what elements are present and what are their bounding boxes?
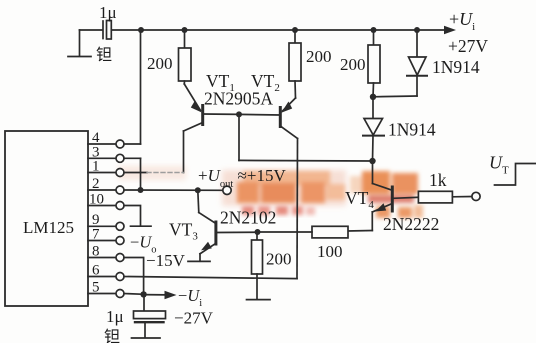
svg-text:7: 7: [92, 227, 100, 243]
wire node to VT4 collector: [372, 161, 374, 184]
pin 8 circle: [116, 254, 124, 262]
transistor VT2 2N2905A bar: [279, 108, 282, 127]
node rail/R1: [182, 27, 188, 33]
pin 7 circle: [116, 237, 124, 245]
resistor R4 200 (VT3 base to gnd): [252, 232, 263, 299]
svg-text:钽: 钽: [104, 328, 120, 343]
arrow +Ui: [444, 26, 456, 35]
node R3/D1/D2: [370, 94, 376, 100]
capacitor C2 1u tantalum (bottom): [134, 294, 166, 337]
node rail/R3: [371, 27, 377, 33]
node pin5/pin8/C2: [140, 291, 146, 297]
pin 9 circle: [116, 222, 124, 230]
resistor R2 200 (middle): [289, 30, 301, 98]
wire -Ui arrow line: [144, 294, 166, 296]
emitter arrow VT4: [375, 203, 386, 211]
pin 2 circle: [116, 186, 124, 194]
wire top rail +Ui: [112, 29, 446, 31]
pin 7 stub: [88, 240, 116, 242]
emitter arrow VT3: [201, 242, 212, 251]
resistor R6 100: [312, 226, 348, 238]
LM125 box: [5, 131, 88, 306]
svg-text:钽: 钽: [96, 46, 112, 64]
svg-text:200: 200: [340, 55, 366, 74]
watermark pink halo middle: [118, 166, 346, 206]
diode D2 1N914 (lower): [363, 97, 384, 161]
wire pin 2 to +Uout terminal: [124, 189, 223, 191]
wire R1 to VT1 emitter: [184, 84, 200, 111]
svg-text:UT: UT: [489, 153, 509, 177]
transistor VT1 2N2905A bar: [201, 106, 204, 125]
resistor R3 200 (right): [368, 30, 380, 97]
svg-text:5: 5: [92, 280, 100, 296]
terminal +Uout: [223, 186, 231, 194]
node D2/base-line/VT4: [369, 158, 375, 164]
svg-text:200: 200: [306, 47, 332, 66]
svg-text:10: 10: [89, 192, 104, 208]
pin 6 stub: [88, 276, 116, 278]
watermark red row 2: [242, 206, 315, 215]
ground pin 10: [131, 225, 152, 227]
wire R2 to VT2 emitter: [283, 98, 296, 111]
arrow -Ui: [165, 291, 177, 299]
svg-text:1μ: 1μ: [99, 3, 117, 22]
watermark right blob VT4 area: [350, 171, 423, 218]
svg-text:2N2222: 2N2222: [383, 214, 439, 234]
wire VT4 emitter to R6: [348, 230, 372, 233]
wire ground to capacitor C1: [80, 29, 103, 31]
pin 1 circle: [116, 169, 124, 177]
wire pin 8 down to pin 5: [124, 258, 144, 295]
ground R4: [247, 299, 271, 301]
wire VT2 collector down to pin6 line: [296, 139, 299, 279]
wire pin 4: [124, 143, 141, 145]
pin 3 circle: [116, 154, 124, 162]
wire VT3 emitter diagonal: [200, 243, 216, 254]
node rail/D1: [414, 27, 420, 33]
wire R5 to terminal: [453, 196, 472, 198]
wire D1 cathode to R3 node: [373, 95, 417, 98]
wire R6 to VT3 base node: [258, 231, 313, 233]
emitter arrow VT2: [281, 102, 292, 113]
wire VT1 collector to pin 1: [183, 131, 185, 173]
wire VT1 base: [204, 113, 240, 115]
svg-text:200: 200: [266, 250, 292, 269]
ground C2: [132, 337, 161, 339]
pin 10 circle: [116, 202, 124, 210]
transistor VT4 2N2222 bar: [391, 187, 394, 211]
wire base junction to diode node: [239, 159, 373, 162]
node rail/R2: [292, 27, 298, 33]
svg-text:+27V: +27V: [448, 36, 488, 56]
svg-text:−Uo: −Uo: [130, 233, 156, 256]
svg-text:1μ: 1μ: [106, 307, 124, 326]
capacitor C1 1u tantalum (top-left): [103, 21, 111, 40]
svg-text:1k: 1k: [429, 170, 447, 190]
transistor VT3 2N2102 bar: [214, 222, 217, 244]
node pin2/VT3 collector: [195, 187, 201, 193]
resistor R5 1k: [418, 191, 452, 203]
node VT1/VT2 base junction: [236, 111, 242, 117]
pin 8 stub: [88, 257, 116, 259]
svg-text:1: 1: [92, 159, 100, 175]
svg-text:2N2102: 2N2102: [220, 208, 276, 228]
pin 4 stub: [88, 143, 116, 145]
wire pin 5: [124, 293, 144, 296]
wire VT4 base to R5: [394, 197, 419, 198]
wire VT4 emitter down: [371, 212, 373, 231]
wire VT3 emitter down: [199, 254, 201, 261]
wire VT2 base: [239, 113, 279, 116]
wire pin 1 solid part: [124, 172, 147, 174]
pin 10 stub: [88, 205, 116, 207]
node VT3 base / R4: [255, 229, 261, 235]
wire VT3 base: [217, 231, 258, 233]
ground (top-left): [68, 30, 91, 57]
wire base junction down: [238, 114, 240, 160]
wire VT1 collector diagonal: [184, 123, 203, 132]
svg-text:200: 200: [147, 54, 173, 73]
wire pin 6 to VT2 collector: [124, 277, 297, 279]
wire rail to pin 4: [140, 30, 142, 144]
wire VT4 collector diagonal: [373, 184, 392, 191]
svg-text:−27V: −27V: [174, 309, 214, 328]
svg-text:VT3: VT3: [169, 220, 198, 243]
wire VT4 emitter diagonal: [372, 204, 392, 213]
svg-text:6: 6: [92, 263, 100, 279]
diode D1 1N914 (upper): [407, 30, 427, 96]
terminal UT input: [472, 192, 480, 200]
emitter arrow VT1: [191, 101, 202, 113]
node pin2/pin3: [138, 187, 144, 193]
svg-text:8: 8: [92, 244, 100, 260]
pin 2 stub: [88, 189, 116, 191]
pin 5 circle: [116, 290, 124, 298]
wire pin 10: [124, 206, 141, 227]
svg-text:LM125: LM125: [23, 218, 74, 237]
pin 4 circle: [116, 140, 124, 148]
wire pin 1 faded part: [147, 172, 184, 174]
svg-text:2N2905A: 2N2905A: [204, 89, 273, 109]
svg-text:2: 2: [92, 176, 100, 192]
wire pin 3 down to pin 2 line: [140, 158, 142, 190]
svg-text:100: 100: [317, 242, 343, 261]
pin 1 stub: [88, 172, 116, 174]
wire VT3 collector up to pin2 line: [198, 190, 199, 212]
svg-text:−Ui: −Ui: [178, 286, 202, 309]
pin 9 stub: [88, 225, 116, 227]
svg-text:1N914: 1N914: [432, 57, 480, 77]
watermark orange row 1: [237, 171, 345, 203]
wire pin 3: [124, 157, 141, 159]
wire VT2 collector diagonal: [280, 126, 297, 139]
pin 6 circle: [116, 273, 124, 281]
svg-text:1N914: 1N914: [388, 120, 436, 140]
wire VT3 collector diagonal: [199, 213, 216, 224]
resistor R1 200 (left): [179, 30, 192, 84]
pin 3 stub: [88, 157, 116, 159]
terminal -15V bar: [188, 260, 210, 262]
node rail/pin4: [138, 27, 144, 33]
UT square wave symbol: [495, 164, 536, 186]
pin 5 stub: [88, 293, 116, 295]
